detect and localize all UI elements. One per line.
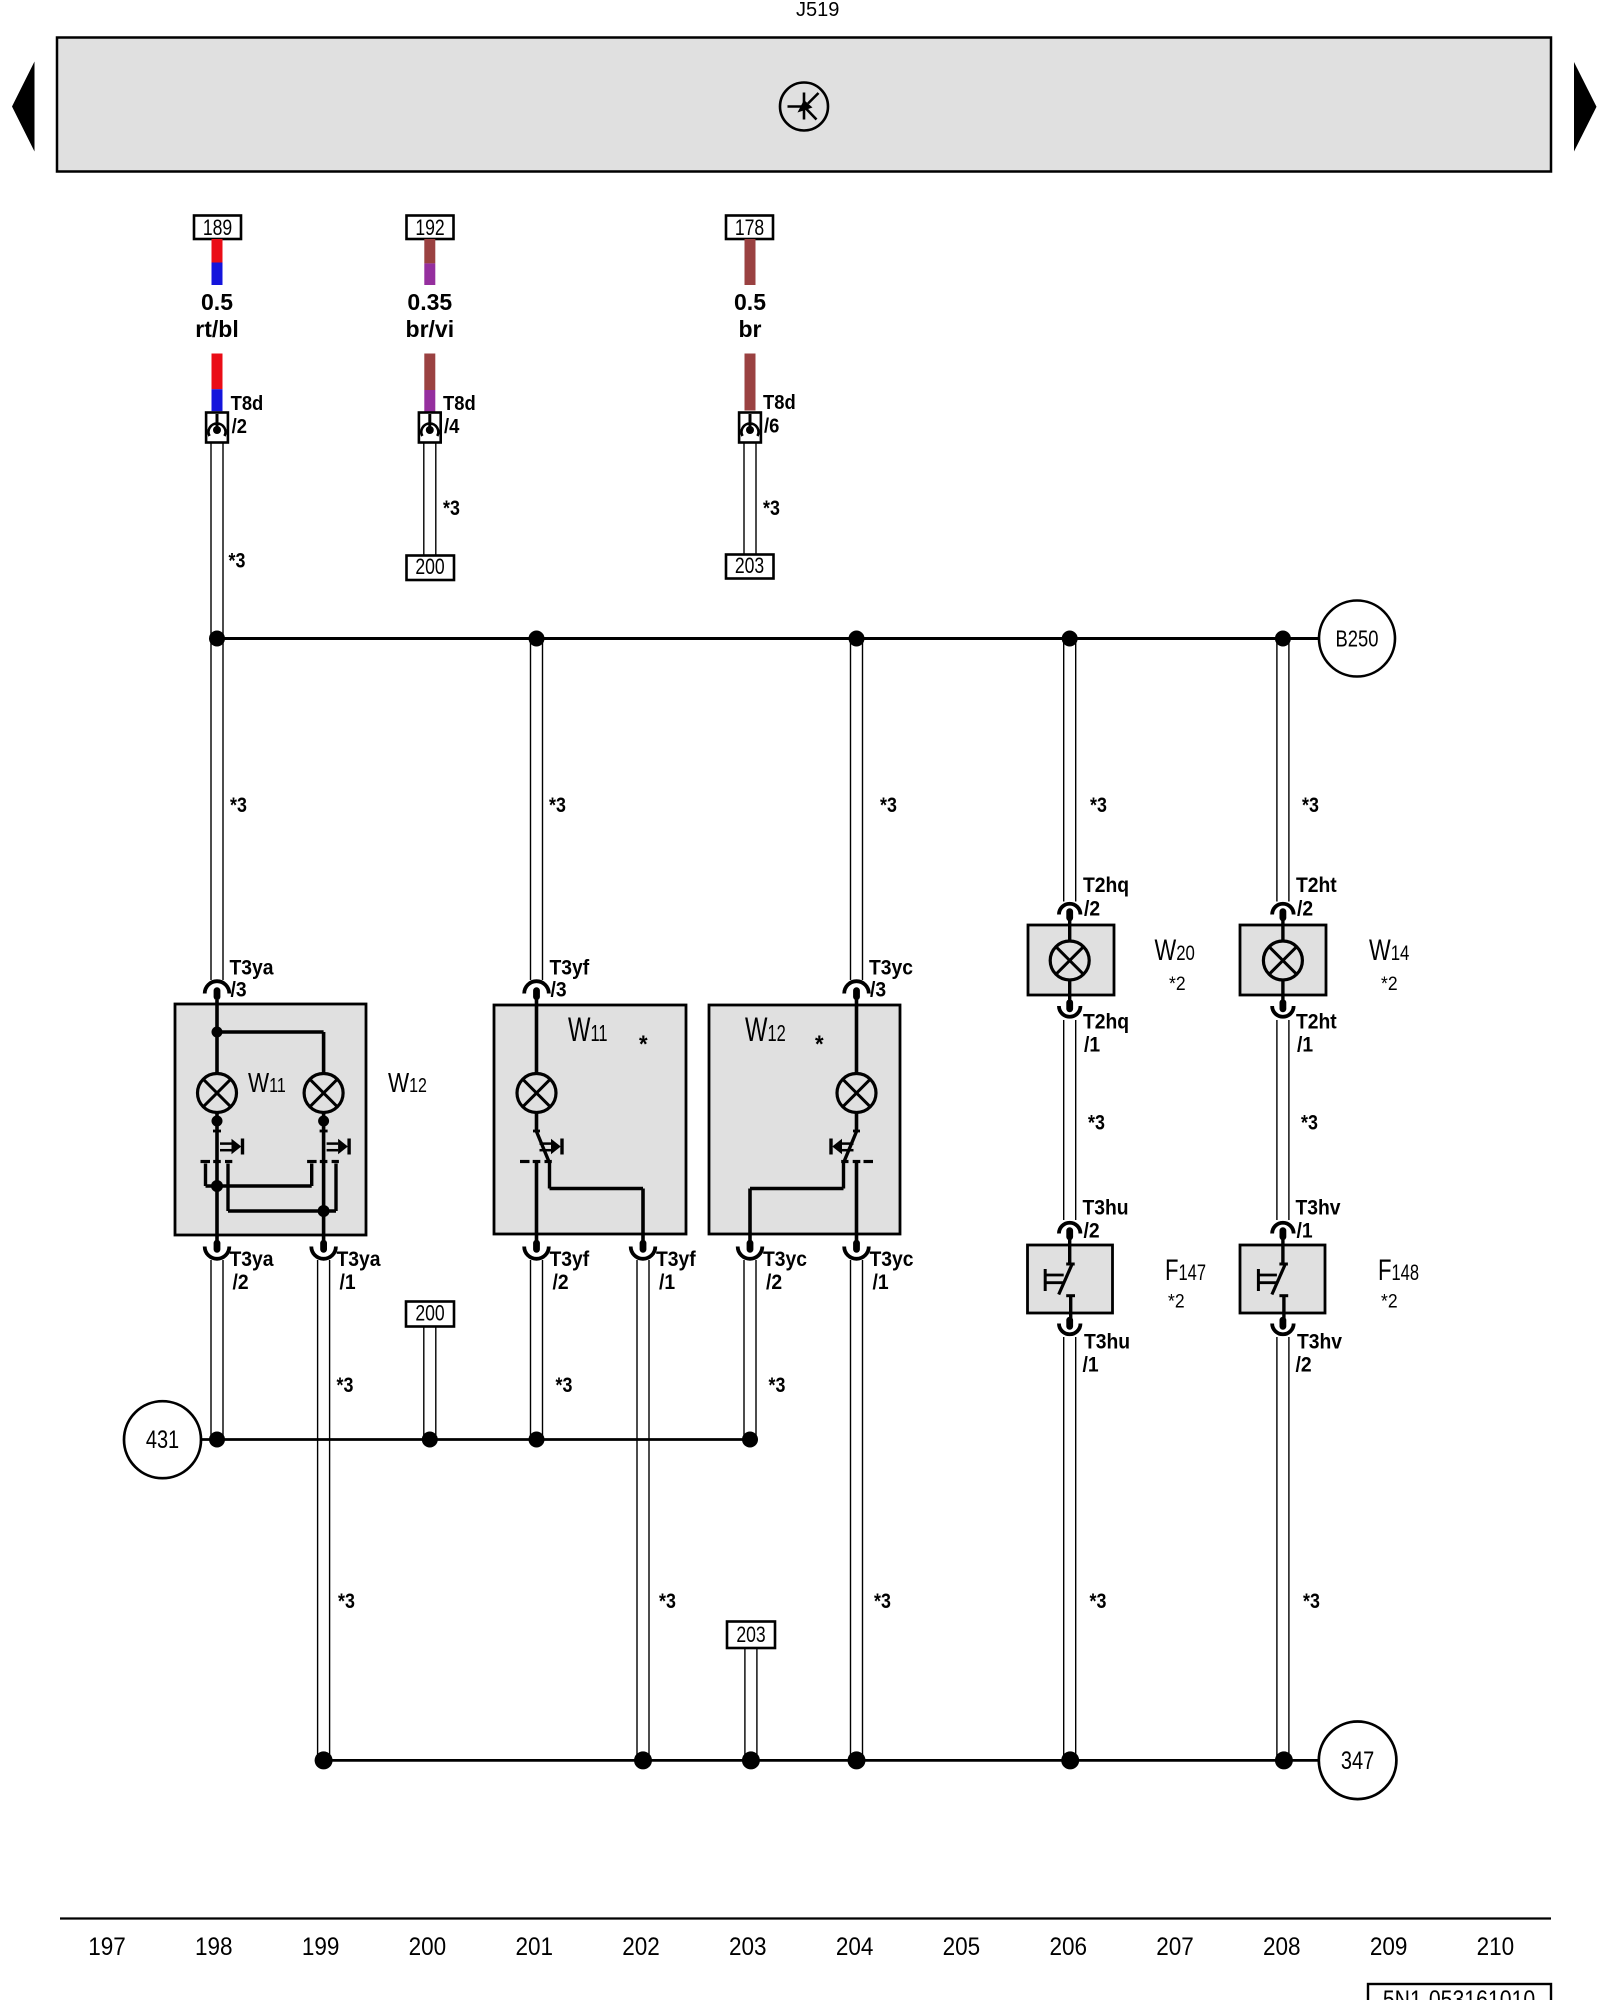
- svg-text:*: *: [639, 1030, 648, 1057]
- connector T2ht/1 symbol: [1272, 999, 1294, 1017]
- wire 0.5 rt/bl upper segment (node 189): [212, 239, 223, 285]
- node 200 reference box (upper): [407, 556, 455, 581]
- wire 0.5 br upper segment (node 178): [745, 239, 756, 285]
- wire T8d/2 to node B250 bus and W-box (col 198): [211, 443, 223, 981]
- svg-text:/2: /2: [766, 1271, 782, 1294]
- lamp W20 box: [1028, 925, 1114, 995]
- svg-text:203: 203: [735, 554, 764, 578]
- wire T3yc/2 to node 431 (col203): [744, 1260, 756, 1440]
- junction on B250 bus (col204): [849, 631, 865, 647]
- lamp W20 symbol: [1050, 941, 1089, 980]
- node 203 reference box (upper): [726, 555, 774, 579]
- svg-text:W20: W20: [1155, 933, 1195, 966]
- svg-text:/3: /3: [231, 979, 247, 1002]
- svg-text:T3hu: T3hu: [1083, 1197, 1129, 1220]
- svg-text:/2: /2: [1297, 898, 1313, 921]
- node 178 reference box: [726, 216, 773, 240]
- connector T2hq/1 symbol: [1059, 999, 1081, 1017]
- switch F147 symbol: [1045, 1240, 1075, 1319]
- connector T3ya/1 symbol: [311, 1240, 336, 1259]
- continuation arrow left: [12, 62, 35, 152]
- junction 431 rail (col198): [209, 1432, 225, 1448]
- wire node200 to 431 rail (col200): [424, 1327, 436, 1440]
- wire T3ya/1 to node 347 rail (col199): [318, 1260, 330, 1760]
- svg-text:T2ht: T2ht: [1296, 1011, 1337, 1034]
- svg-text:189: 189: [203, 216, 232, 240]
- exit wire to T3ya/1: [322, 1211, 326, 1242]
- svg-text:/1: /1: [1297, 1220, 1313, 1243]
- svg-text:/6: /6: [764, 416, 779, 438]
- switch F148 box: [1240, 1245, 1325, 1313]
- wire 0.5 br lower segment (to T8d/6): [745, 354, 756, 411]
- connector T3yc/1 symbol: [844, 1240, 869, 1259]
- svg-text:205: 205: [943, 1933, 981, 1961]
- connector T8d/6 symbol: [739, 413, 761, 443]
- wire bus to W12 box (col 204): [851, 639, 863, 981]
- junction on B250 bus (col208): [1275, 631, 1291, 647]
- svg-text:T3hv: T3hv: [1296, 1197, 1342, 1220]
- svg-text:200: 200: [409, 1933, 447, 1961]
- svg-text:203: 203: [729, 1933, 767, 1961]
- svg-text:/1: /1: [1083, 1354, 1099, 1377]
- node 200 reference box (lower): [406, 1302, 454, 1327]
- wire T8d/4 to node 200 (col 200): [424, 443, 436, 557]
- internal wire to right lamp: [217, 1030, 324, 1033]
- node 431 rail wire: [201, 1438, 750, 1441]
- node B250 circle: [1319, 601, 1395, 677]
- wire bus to W20 (col 206): [1064, 639, 1076, 902]
- svg-text:br: br: [739, 316, 762, 342]
- connector T3hv/2 symbol: [1272, 1317, 1294, 1335]
- svg-text:204: 204: [836, 1933, 874, 1961]
- svg-text:B250: B250: [1336, 627, 1379, 652]
- junction on B250 bus (col206): [1062, 631, 1078, 647]
- svg-text:T2hq: T2hq: [1083, 874, 1129, 897]
- connector T3ya/2 symbol: [205, 1240, 230, 1259]
- svg-text:*: *: [815, 1030, 824, 1057]
- internal wires W14: [1281, 919, 1284, 942]
- svg-text:0.5: 0.5: [201, 289, 233, 315]
- node 192 reference box: [407, 216, 454, 240]
- switch F148 symbol: [1258, 1240, 1288, 1319]
- svg-text:431: 431: [146, 1426, 179, 1454]
- junction 347 rail (col206): [1061, 1751, 1079, 1769]
- svg-text:*2: *2: [1169, 972, 1186, 994]
- svg-text:/4: /4: [444, 416, 460, 438]
- switch F147 box: [1028, 1245, 1113, 1313]
- node 203 reference box (lower): [727, 1622, 775, 1649]
- wire 0.5 rt/bl lower segment (to T8d/2): [212, 354, 223, 412]
- svg-text:rt/bl: rt/bl: [195, 316, 238, 342]
- wire T3yc/1 to node 347 rail (col204): [851, 1260, 863, 1760]
- junction on B250 bus (col198): [209, 631, 225, 647]
- svg-text:T3yc: T3yc: [869, 957, 913, 980]
- wire bus to W14 (col 208): [1277, 639, 1289, 902]
- bottom separator line: [60, 1917, 1551, 1919]
- svg-text:*3: *3: [230, 794, 247, 818]
- svg-text:*2: *2: [1381, 1290, 1398, 1312]
- svg-text:T3yf: T3yf: [656, 1248, 696, 1271]
- svg-text:347: 347: [1341, 1747, 1374, 1775]
- junction 347 rail (col208): [1275, 1751, 1293, 1769]
- svg-text:*2: *2: [1168, 1290, 1185, 1312]
- svg-text:192: 192: [415, 216, 444, 240]
- svg-text:T3ya: T3ya: [230, 1248, 275, 1271]
- wire W20 to F147 (col206): [1064, 1020, 1076, 1220]
- svg-text:T3yf: T3yf: [550, 1248, 590, 1271]
- lamp unit W11+W12 box (left): [175, 1004, 366, 1235]
- lamp W11 symbol (box2): [517, 1074, 556, 1113]
- junction 431 rail (col201): [529, 1432, 545, 1448]
- crossover wiring (box1): [206, 1164, 337, 1212]
- wire bus to W11 box (col 201): [531, 639, 543, 981]
- svg-text:/2: /2: [1296, 1354, 1312, 1377]
- svg-text:208: 208: [1263, 1933, 1301, 1961]
- connector T3yf/2 symbol: [524, 1240, 549, 1259]
- svg-text:J519: J519: [796, 0, 839, 21]
- wire T3yf/1 to node 347 rail (col202): [637, 1260, 649, 1760]
- lamp W12 symbol (box3): [837, 1074, 876, 1113]
- svg-text:*3: *3: [763, 497, 780, 521]
- node 431 circle: [124, 1401, 201, 1478]
- connector T3hv/1 symbol: [1272, 1223, 1294, 1241]
- wire 0.35 br/vi upper segment (node 192): [424, 239, 435, 285]
- wire F148 to 347 rail (col208): [1277, 1337, 1289, 1760]
- svg-text:W12: W12: [388, 1068, 427, 1099]
- lamp unit W12 box (right): [709, 1005, 900, 1234]
- svg-text:*3: *3: [1302, 794, 1319, 818]
- svg-text:0.35: 0.35: [407, 289, 452, 315]
- wire 0.35 br/vi lower segment (to T8d/4): [424, 354, 435, 412]
- svg-text:197: 197: [88, 1933, 126, 1961]
- LED driver symbol left (box1): [201, 1113, 243, 1164]
- internal wire from T3yf/3: [535, 1000, 539, 1074]
- svg-text:/2: /2: [553, 1271, 569, 1294]
- svg-text:0.5: 0.5: [734, 289, 766, 315]
- svg-text:*3: *3: [338, 1590, 355, 1614]
- junction 431 rail (col203): [742, 1432, 758, 1448]
- svg-text:/2: /2: [1084, 1220, 1100, 1243]
- internal wires W20: [1068, 919, 1071, 942]
- junction 431 rail (col200): [422, 1432, 438, 1448]
- connector T3hu/2 symbol: [1059, 1223, 1081, 1241]
- svg-text:F147: F147: [1165, 1253, 1206, 1287]
- svg-text:T3hu: T3hu: [1084, 1331, 1130, 1354]
- exit wire to T3ya/2: [215, 1186, 219, 1242]
- svg-text:201: 201: [515, 1933, 553, 1961]
- svg-text:178: 178: [735, 216, 764, 240]
- svg-text:199: 199: [302, 1933, 340, 1961]
- svg-text:T3ya: T3ya: [230, 957, 275, 980]
- internal wire from T3yc/3: [855, 1000, 859, 1074]
- svg-text:/1: /1: [873, 1271, 889, 1294]
- svg-text:*2: *2: [1381, 972, 1398, 994]
- svg-text:/2: /2: [232, 416, 247, 438]
- svg-text:206: 206: [1049, 1933, 1087, 1961]
- exit wires (box3): [750, 1163, 857, 1243]
- svg-text:T3yc: T3yc: [763, 1248, 807, 1271]
- connector T3yf/1 symbol: [631, 1240, 656, 1259]
- connector T3yc/3 symbol: [844, 981, 869, 1000]
- svg-text:203: 203: [736, 1623, 765, 1647]
- connector T2hq/2 symbol: [1059, 904, 1081, 921]
- exit wires (box2): [537, 1163, 644, 1243]
- lamp W12 symbol (box1 right): [304, 1074, 343, 1113]
- LED driver symbol right (box1): [307, 1113, 349, 1164]
- svg-text:*3: *3: [1303, 1590, 1320, 1614]
- control unit J519 bus bar: [57, 38, 1551, 172]
- internal junction (box1 top): [212, 1027, 223, 1038]
- svg-text:*3: *3: [229, 549, 246, 573]
- svg-text:*3: *3: [337, 1374, 354, 1398]
- svg-text:br/vi: br/vi: [406, 316, 455, 342]
- junction 347 rail (col199): [315, 1751, 333, 1769]
- connector T8d/4 symbol: [419, 413, 441, 443]
- svg-text:/3: /3: [551, 979, 567, 1002]
- wire T3ya/2 to node 431 (col198): [211, 1260, 223, 1440]
- LED driver symbol (box3): [831, 1113, 873, 1162]
- svg-text:*3: *3: [1088, 1111, 1105, 1135]
- node 347 circle: [1319, 1722, 1397, 1800]
- svg-text:202: 202: [622, 1933, 660, 1961]
- connector T3ya/3 symbol: [205, 981, 230, 1000]
- svg-text:W14: W14: [1369, 933, 1410, 966]
- svg-text:T3hv: T3hv: [1297, 1331, 1343, 1354]
- junction 347 rail (col202): [634, 1751, 652, 1769]
- connector T3yf/3 symbol: [524, 981, 549, 1000]
- lamp W11 symbol (box1 left): [198, 1074, 237, 1113]
- wire node203 to 347 rail: [745, 1648, 757, 1760]
- lamp unit W11 box (middle): [494, 1005, 686, 1234]
- svg-text:*3: *3: [1090, 794, 1107, 818]
- svg-text:/1: /1: [340, 1271, 356, 1294]
- svg-text:/1: /1: [1084, 1034, 1100, 1057]
- wire F147 to 347 rail (col206): [1064, 1337, 1076, 1760]
- svg-text:*3: *3: [874, 1590, 891, 1614]
- wire W14 to F148 (col208): [1277, 1020, 1289, 1220]
- wire T3yf/2 to node 431 (col201): [531, 1260, 543, 1440]
- connector T2ht/2 symbol: [1272, 904, 1294, 921]
- node 347 rail wire: [324, 1759, 1319, 1762]
- svg-text:*3: *3: [443, 497, 460, 521]
- svg-text:T8d: T8d: [231, 393, 264, 415]
- connector T3hu/1 symbol: [1059, 1317, 1081, 1335]
- svg-text:*3: *3: [659, 1590, 676, 1614]
- svg-text:T3yf: T3yf: [550, 957, 590, 980]
- svg-text:*3: *3: [556, 1374, 573, 1398]
- svg-text:T3yc: T3yc: [870, 1248, 914, 1271]
- svg-text:/1: /1: [1297, 1034, 1313, 1057]
- connector T8d/2 symbol: [206, 413, 228, 443]
- connector T3yc/2 symbol: [738, 1240, 763, 1259]
- continuation arrow right: [1574, 62, 1597, 152]
- svg-text:198: 198: [195, 1933, 233, 1961]
- junction 347 rail (col203): [742, 1751, 760, 1769]
- junction on B250 bus (col201): [529, 631, 545, 647]
- bus wire to node B250: [217, 637, 1319, 640]
- svg-text:200: 200: [415, 555, 444, 579]
- internal wire from T3ya/3: [215, 1000, 219, 1074]
- wire T8d/6 to node 203 (col 203): [744, 443, 756, 556]
- internal junction (box1 T3ya/2): [211, 1180, 223, 1192]
- svg-text:*3: *3: [1090, 1590, 1107, 1614]
- svg-text:200: 200: [415, 1302, 444, 1326]
- svg-text:T8d: T8d: [443, 393, 476, 415]
- junction 347 rail (col204): [848, 1751, 866, 1769]
- svg-text:/1: /1: [659, 1271, 675, 1294]
- svg-text:/3: /3: [870, 979, 886, 1002]
- svg-text:T8d: T8d: [763, 392, 796, 414]
- svg-text:/2: /2: [233, 1271, 249, 1294]
- svg-text:210: 210: [1477, 1933, 1515, 1961]
- svg-text:T3ya: T3ya: [337, 1248, 382, 1271]
- svg-text:207: 207: [1156, 1933, 1194, 1961]
- svg-text:/2: /2: [1084, 898, 1100, 921]
- lamp W14 symbol: [1263, 941, 1302, 980]
- node 189 reference box: [194, 216, 241, 240]
- internal junction (box1 T3ya/1): [318, 1205, 330, 1217]
- svg-text:*3: *3: [880, 794, 897, 818]
- svg-text:5N1-053161010: 5N1-053161010: [1383, 1985, 1535, 2000]
- svg-text:T2hq: T2hq: [1083, 1011, 1129, 1034]
- LED driver symbol (box2): [520, 1113, 562, 1162]
- svg-text:*3: *3: [769, 1374, 786, 1398]
- svg-text:T2ht: T2ht: [1296, 874, 1337, 897]
- svg-text:*3: *3: [1301, 1111, 1318, 1135]
- terminal symbol in J519 (circle with arrow): [780, 83, 828, 131]
- svg-text:*3: *3: [549, 794, 566, 818]
- diagram part number box: [1368, 1984, 1551, 2000]
- svg-text:F148: F148: [1378, 1253, 1419, 1287]
- lamp W14 box: [1240, 925, 1326, 995]
- svg-text:209: 209: [1370, 1933, 1408, 1961]
